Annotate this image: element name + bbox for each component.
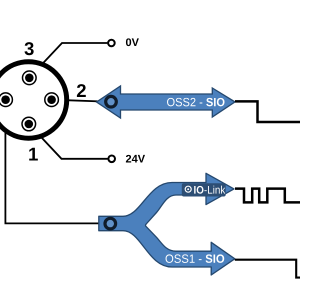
pin 3 (top) [23, 71, 37, 85]
IO-Link signal [235, 189, 300, 203]
wire pin1 to 24V terminal [29, 124, 108, 159]
label pin 1 [29, 148, 38, 161]
label 0V [126, 38, 139, 46]
connector M12 body [0, 62, 67, 138]
label 24V [126, 155, 145, 163]
label OSS1 - SIO [166, 254, 225, 263]
wire pin3 to 0V terminal [29, 43, 107, 78]
label pin 2 [77, 84, 86, 97]
IO-Link dark banner [182, 183, 226, 196]
wire pin4 to IO-Link splitter [5, 103, 105, 223]
label OSS2 - SIO [167, 98, 225, 107]
OSS1 SIO signal [235, 260, 300, 278]
splitter terminal circle [105, 218, 116, 229]
IO-Link logo circle [185, 186, 191, 192]
OSS2 SIO signal [235, 101, 300, 122]
label pin 3 [24, 42, 33, 55]
OSS2 double arrow [97, 86, 236, 118]
pin 1 (bottom) [22, 117, 36, 131]
pin 2 (right) [45, 93, 59, 107]
pin 4 (left) [0, 93, 12, 107]
label IO-Link [194, 186, 225, 194]
splitter Y with IO-Link and OSS1 arrowheads [99, 173, 235, 275]
wire pin2 to OSS2 terminal [52, 100, 106, 102]
terminal 24V [108, 156, 115, 163]
terminal 0V [108, 40, 115, 47]
OSS2 terminal circle [106, 96, 117, 107]
